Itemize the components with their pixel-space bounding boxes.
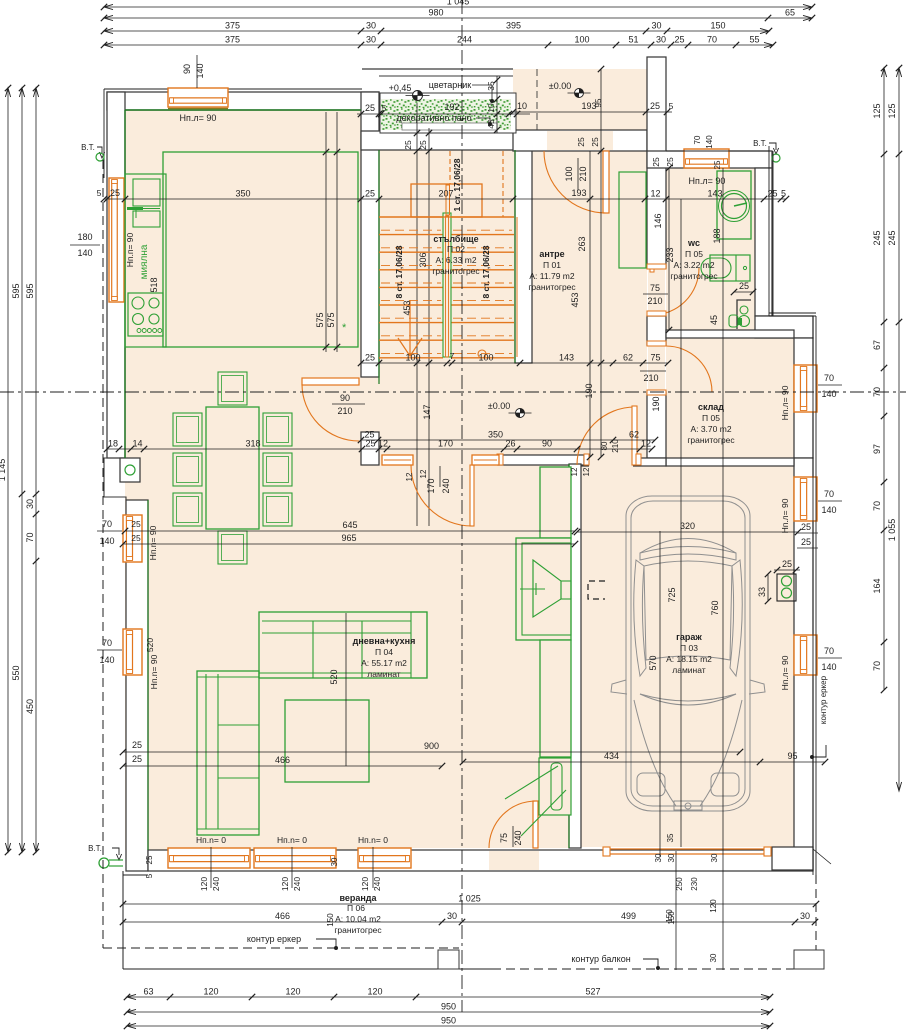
svg-text:62: 62	[623, 353, 633, 363]
svg-text:210: 210	[647, 296, 662, 306]
svg-text:30: 30	[656, 35, 666, 45]
svg-text:453: 453	[570, 292, 580, 307]
svg-text:70: 70	[102, 519, 112, 529]
eaves contour top-left	[104, 88, 362, 90]
svg-text:дневна+кухня: дневна+кухня	[353, 636, 416, 646]
svg-text:25: 25	[365, 103, 375, 113]
svg-text:499: 499	[621, 911, 636, 921]
svg-text:140: 140	[99, 536, 114, 546]
svg-text:980: 980	[428, 8, 443, 18]
toilet	[737, 300, 751, 329]
svg-text:30: 30	[709, 953, 718, 962]
svg-text:1 055: 1 055	[887, 519, 897, 542]
svg-text:П 03: П 03	[680, 643, 698, 653]
svg-text:240: 240	[372, 877, 382, 891]
svg-text:67: 67	[872, 340, 882, 350]
svg-text:1 145: 1 145	[0, 459, 7, 482]
svg-text:Hп.л= 90: Hп.л= 90	[780, 385, 790, 420]
sklad north (wc south) thin wall	[666, 330, 794, 338]
wc-sklad step wall	[755, 316, 813, 338]
stair right rail orange	[516, 217, 518, 357]
svg-text:5: 5	[145, 873, 154, 878]
kontur erker dashed left	[102, 160, 104, 948]
svg-text:30: 30	[25, 499, 35, 509]
dining table	[206, 407, 259, 529]
living-garage wall	[569, 464, 581, 848]
svg-text:240: 240	[292, 877, 302, 891]
svg-text:стълбище: стълбище	[433, 234, 478, 244]
chairs left column	[173, 413, 202, 446]
radiator right of hall door	[472, 455, 499, 465]
thin wall living/antre 26+90	[498, 455, 584, 465]
svg-text:100: 100	[564, 166, 574, 181]
dining row dim y449	[107, 448, 652, 450]
svg-text:25: 25	[801, 522, 811, 532]
void dim lines 575x575	[325, 112, 327, 352]
320 line	[577, 531, 798, 533]
svg-text:453: 453	[402, 300, 412, 315]
veranda pier left	[438, 950, 459, 969]
svg-text:25: 25	[365, 439, 375, 449]
door stair-hall to living	[302, 378, 359, 385]
kitchen counter	[125, 174, 166, 347]
window garage right N	[794, 477, 817, 521]
svg-text:350: 350	[235, 189, 250, 199]
svg-text:Нп.п= 90: Нп.п= 90	[125, 232, 135, 267]
svg-text:30: 30	[330, 857, 339, 866]
svg-text:25: 25	[651, 157, 661, 167]
svg-text:8 ст. 17,06/28: 8 ст. 17,06/28	[481, 245, 491, 298]
svg-text:25: 25	[650, 101, 660, 111]
svg-text:65: 65	[785, 8, 795, 18]
svg-text:230: 230	[690, 877, 699, 891]
svg-text:75: 75	[650, 353, 660, 363]
antre east wall (to wc)	[647, 57, 666, 268]
ceiling opening (void) green rectangle	[163, 152, 358, 347]
garage east wall	[794, 458, 813, 850]
svg-text:25: 25	[801, 537, 811, 547]
svg-text:25: 25	[674, 35, 684, 45]
svg-text:контур балкон: контур балкон	[571, 954, 630, 964]
svg-text:75: 75	[650, 283, 660, 293]
window sklad right	[794, 365, 817, 412]
svg-text:Hп.n= 0: Hп.n= 0	[358, 835, 388, 845]
svg-text:±0.00: ±0.00	[549, 81, 571, 91]
sklad door size	[640, 370, 666, 372]
svg-text:70: 70	[824, 373, 834, 383]
niche box with column	[120, 458, 140, 482]
svg-text:цветарник: цветарник	[429, 80, 472, 90]
svg-text:190: 190	[584, 383, 594, 398]
svg-text:30: 30	[710, 853, 719, 862]
svg-text:100: 100	[405, 353, 420, 363]
svg-text:950: 950	[441, 1002, 456, 1012]
svg-text:150: 150	[667, 911, 676, 925]
svg-text:П 04: П 04	[375, 647, 393, 657]
svg-text:575: 575	[326, 312, 336, 327]
car body	[611, 496, 765, 811]
svg-text:1 045: 1 045	[447, 0, 470, 7]
window kitchen left	[109, 178, 124, 302]
left wall niche step outline	[104, 458, 126, 500]
room floor fills	[125, 110, 361, 850]
veranda window 1	[168, 848, 250, 868]
svg-text:12: 12	[419, 469, 428, 478]
entrance door (antre top)	[603, 151, 609, 213]
svg-text:95: 95	[594, 98, 603, 107]
corridor-garage thin wall segments	[576, 458, 589, 466]
965 line	[123, 543, 575, 545]
svg-text:B.T.: B.T.	[88, 844, 102, 853]
svg-text:ламинат: ламинат	[367, 669, 401, 679]
staircase steps right flight	[451, 216, 514, 218]
svg-text:12: 12	[582, 467, 591, 476]
svg-text:143: 143	[707, 189, 722, 199]
svg-text:164: 164	[872, 578, 882, 593]
right eaves contour	[768, 146, 770, 316]
pano inner plate	[402, 123, 497, 130]
garage door	[609, 848, 764, 850]
radiator left of hall door	[382, 455, 413, 465]
svg-text:ламинат: ламинат	[672, 665, 706, 675]
svg-text:245: 245	[872, 230, 882, 245]
washing machine	[717, 171, 751, 239]
outer wall: left lower	[126, 500, 148, 871]
svg-text:150: 150	[710, 21, 725, 31]
svg-text:12: 12	[378, 439, 388, 449]
svg-text:318: 318	[245, 439, 260, 449]
svg-text:120: 120	[203, 987, 218, 997]
svg-text:35: 35	[666, 833, 675, 842]
svg-text:147: 147	[422, 404, 432, 419]
svg-text:гранитогрес: гранитогрес	[670, 271, 718, 281]
svg-text:125: 125	[872, 103, 882, 118]
boiler garage	[777, 574, 796, 601]
kontur balkon dashed	[492, 968, 816, 970]
main horizontal interior dim line y199	[104, 198, 786, 200]
svg-text:+0,45: +0,45	[389, 83, 412, 93]
svg-text:5: 5	[97, 188, 102, 198]
stair hall west wall	[361, 92, 379, 377]
svg-text:контур еркер: контур еркер	[819, 675, 828, 724]
svg-text:гранитогрес: гранитогрес	[432, 266, 480, 276]
svg-text:320: 320	[680, 521, 695, 531]
svg-text:250: 250	[675, 877, 684, 891]
svg-text:Нп.л= 90: Нп.л= 90	[689, 176, 726, 186]
antre north wall with door opening	[513, 130, 647, 151]
wc vanity unit	[710, 255, 750, 281]
outer wall: living top	[107, 92, 379, 110]
svg-text:375: 375	[225, 35, 240, 45]
stair central stringer green	[443, 213, 451, 357]
svg-text:25: 25	[590, 137, 600, 147]
kitchen sink	[133, 179, 160, 206]
svg-text:70: 70	[872, 501, 882, 511]
veranda window 2	[254, 848, 336, 868]
svg-text:12: 12	[405, 472, 414, 481]
svg-text:35: 35	[486, 81, 496, 91]
svg-text:120: 120	[285, 987, 300, 997]
svg-text:Hп.n= 90: Hп.n= 90	[149, 654, 159, 689]
svg-text:1 025: 1 025	[458, 894, 481, 904]
sklad east wall	[794, 338, 813, 458]
svg-text:30: 30	[366, 35, 376, 45]
svg-text:26: 26	[505, 439, 515, 449]
svg-text:120: 120	[709, 899, 718, 913]
svg-text:30: 30	[800, 911, 810, 921]
svg-text:120: 120	[199, 877, 209, 891]
svg-text:A: 3.22 m2: A: 3.22 m2	[673, 260, 714, 270]
green wall faces living	[125, 109, 361, 111]
svg-text:контур еркер: контур еркер	[247, 934, 301, 944]
svg-text:14: 14	[132, 439, 142, 449]
fireplace body	[516, 538, 571, 640]
svg-text:25: 25	[767, 189, 777, 199]
900 line	[123, 751, 740, 753]
staircase steps left flight	[379, 216, 443, 218]
svg-text:965: 965	[341, 533, 356, 543]
veranda bottom dim lines	[123, 903, 816, 905]
stove 4 burners	[128, 293, 163, 336]
svg-text:П 05: П 05	[702, 413, 720, 423]
466 line	[123, 765, 442, 767]
svg-text:B.T.: B.T.	[81, 143, 95, 152]
svg-text:70: 70	[693, 135, 702, 144]
decorative pano speckled box	[380, 93, 516, 133]
svg-text:10: 10	[486, 103, 496, 113]
svg-text:210: 210	[337, 406, 352, 416]
antre east wall below sklad door	[647, 392, 666, 458]
svg-text:70: 70	[824, 489, 834, 499]
svg-text:Hп.л= 90: Hп.л= 90	[780, 498, 790, 533]
stair newel circle	[478, 350, 486, 358]
wc/sklad/garage vertical dim lines	[680, 199, 682, 847]
svg-text:244: 244	[457, 35, 472, 45]
svg-text:240: 240	[513, 830, 523, 845]
coffee table	[285, 700, 369, 782]
wall post below stair-hall door	[361, 432, 379, 465]
svg-text:140: 140	[705, 135, 714, 149]
tv unit	[539, 758, 571, 815]
centerline vertical	[461, 0, 463, 1012]
svg-text:П 02: П 02	[447, 244, 465, 254]
svg-text:146: 146	[653, 213, 663, 228]
svg-text:25: 25	[576, 137, 586, 147]
svg-text:70: 70	[25, 532, 35, 542]
svg-text:30: 30	[447, 911, 457, 921]
svg-text:645: 645	[342, 520, 357, 530]
svg-text:263: 263	[577, 236, 587, 251]
svg-text:170: 170	[438, 439, 453, 449]
svg-text:55: 55	[749, 35, 759, 45]
top window dim 90/140	[196, 55, 198, 88]
window wc top	[684, 149, 729, 168]
svg-text:70: 70	[872, 387, 882, 397]
svg-text:1 ст. 17,06/28: 1 ст. 17,06/28	[452, 158, 462, 211]
stair block north wall	[361, 131, 532, 150]
svg-text:90: 90	[542, 439, 552, 449]
svg-text:245: 245	[887, 230, 897, 245]
svg-text:25: 25	[403, 140, 413, 150]
svg-text:70: 70	[872, 661, 882, 671]
svg-text:П 05: П 05	[685, 249, 703, 259]
svg-text:A: 10.04 m2: A: 10.04 m2	[335, 914, 381, 924]
svg-text:Hп.n= 90: Hп.n= 90	[148, 525, 158, 560]
svg-text:570: 570	[648, 655, 658, 670]
svg-text:95: 95	[787, 751, 797, 761]
svg-text:70: 70	[102, 638, 112, 648]
svg-text:466: 466	[275, 755, 290, 765]
svg-text:140: 140	[99, 655, 114, 665]
outer wall: left upper	[107, 92, 125, 458]
chair top	[218, 372, 247, 405]
door sklad	[648, 345, 665, 392]
svg-text:75: 75	[499, 833, 509, 843]
bottom wall band	[148, 850, 813, 871]
veranda window 3	[358, 848, 411, 868]
door wc	[648, 268, 665, 316]
svg-text:25: 25	[739, 281, 749, 291]
svg-text:A: 3.70 m2: A: 3.70 m2	[690, 424, 731, 434]
svg-text:90: 90	[182, 64, 192, 74]
door corridor-garage	[589, 457, 633, 467]
svg-text:A: 11.79 m2: A: 11.79 m2	[529, 271, 574, 281]
svg-text:A: 18.15 m2: A: 18.15 m2	[666, 654, 712, 664]
svg-text:527: 527	[585, 987, 600, 997]
svg-text:12: 12	[650, 189, 660, 199]
svg-text:10: 10	[517, 101, 527, 111]
svg-text:100: 100	[478, 353, 493, 363]
svg-text:миялна: миялна	[139, 244, 150, 279]
svg-text:350: 350	[488, 430, 503, 440]
sofa horizontal part	[259, 612, 427, 678]
svg-text:A: 55.17 m2: A: 55.17 m2	[361, 658, 407, 668]
svg-text:240: 240	[211, 877, 221, 891]
svg-text:wc: wc	[687, 238, 700, 248]
svg-text:170: 170	[426, 478, 436, 493]
svg-text:25: 25	[131, 533, 141, 543]
garage bottom-right pier	[772, 847, 813, 870]
svg-text:120: 120	[367, 987, 382, 997]
svg-text:Hп.л= 90: Hп.л= 90	[780, 655, 790, 690]
svg-text:900: 900	[424, 741, 439, 751]
svg-text:25: 25	[418, 140, 428, 150]
chair bottom	[218, 531, 247, 564]
sofa vertical part	[197, 671, 259, 835]
svg-text:760: 760	[710, 600, 720, 615]
svg-text:30: 30	[654, 853, 663, 862]
svg-text:90: 90	[340, 393, 350, 403]
svg-text:62: 62	[629, 430, 639, 440]
svg-text:B.T.: B.T.	[753, 139, 767, 148]
svg-text:45: 45	[709, 315, 719, 325]
svg-text:143: 143	[559, 353, 574, 363]
svg-text:70: 70	[707, 35, 717, 45]
svg-text:30: 30	[651, 21, 661, 31]
antre closet	[619, 172, 646, 268]
window left B	[123, 629, 142, 675]
window living top	[168, 88, 228, 107]
svg-text:725: 725	[667, 587, 677, 602]
svg-text:190: 190	[651, 396, 661, 411]
svg-text:гараж: гараж	[676, 632, 702, 642]
svg-text:550: 550	[11, 665, 21, 680]
svg-text:18: 18	[108, 439, 118, 449]
door hall to living (170 opening) panel+arc	[470, 465, 474, 526]
antre vertical dim lines	[600, 69, 602, 457]
svg-text:192: 192	[444, 102, 459, 112]
svg-text:П 06: П 06	[347, 903, 365, 913]
stair down arrow	[398, 338, 422, 356]
svg-text:180: 180	[77, 232, 92, 242]
svg-text:склад: склад	[698, 402, 724, 412]
svg-text:Нп.л= 90: Нп.л= 90	[180, 113, 217, 123]
svg-text:140: 140	[195, 63, 205, 78]
svg-text:375: 375	[225, 21, 240, 31]
svg-text:25: 25	[145, 855, 154, 864]
antre east wall between doors	[647, 316, 666, 345]
svg-text:575: 575	[315, 312, 325, 327]
svg-text:25: 25	[132, 754, 142, 764]
svg-text:210: 210	[611, 439, 620, 453]
veranda door opening	[489, 851, 539, 870]
svg-text:25: 25	[365, 353, 375, 363]
svg-text:гранитогрес: гранитогрес	[528, 282, 576, 292]
svg-text:декоративно пано: декоративно пано	[396, 113, 471, 123]
svg-text:950: 950	[441, 1016, 456, 1026]
svg-text:100: 100	[574, 35, 589, 45]
flue cleanout dashed mark	[588, 581, 605, 599]
svg-text:25: 25	[365, 189, 375, 199]
chairs right column	[263, 413, 292, 446]
svg-text:веранда: веранда	[339, 893, 377, 903]
sklad south thin wall	[666, 458, 794, 466]
stair top dim verticals	[416, 103, 418, 526]
svg-text:434: 434	[604, 751, 619, 761]
svg-text:70: 70	[824, 646, 834, 656]
svg-text:306: 306	[418, 252, 428, 267]
svg-text:120: 120	[360, 877, 370, 891]
fireplace flue upper	[540, 467, 571, 538]
svg-text:240: 240	[441, 478, 451, 493]
645 line	[125, 530, 575, 532]
svg-text:Hп.n= 0: Hп.n= 0	[196, 835, 226, 845]
dashed flight continuation above	[449, 151, 451, 184]
svg-text:8 ст. 17,06/28: 8 ст. 17,06/28	[394, 245, 404, 298]
svg-text:595: 595	[25, 283, 35, 298]
bottom dimension chains	[127, 996, 770, 998]
svg-text:*: *	[342, 322, 347, 334]
veranda outline	[122, 871, 124, 969]
svg-text:25: 25	[131, 519, 141, 529]
svg-text:210: 210	[643, 373, 658, 383]
svg-text:±0.00: ±0.00	[488, 401, 510, 411]
left dimension chains	[7, 88, 9, 852]
svg-text:466: 466	[275, 911, 290, 921]
svg-text:120: 120	[280, 877, 290, 891]
right dimension chains	[883, 68, 885, 690]
svg-text:395: 395	[506, 21, 521, 31]
fireplace flue lower	[540, 640, 571, 757]
svg-text:25: 25	[110, 188, 120, 198]
door living to veranda (75)	[533, 801, 538, 848]
434/95 line	[463, 761, 825, 763]
svg-text:25: 25	[782, 559, 792, 569]
svg-text:30: 30	[667, 853, 676, 862]
svg-text:140: 140	[821, 662, 836, 672]
svg-text:12: 12	[641, 439, 651, 449]
wc vertical dim line	[668, 168, 670, 330]
